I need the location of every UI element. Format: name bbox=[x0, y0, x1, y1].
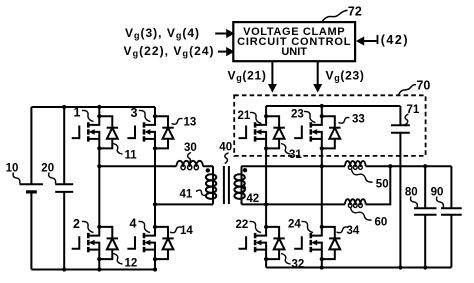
svg-text:60: 60 bbox=[375, 217, 388, 229]
label 34 bbox=[337, 225, 360, 237]
label 31 bbox=[281, 144, 302, 162]
label 32 bbox=[281, 254, 304, 271]
node: leg A' mid junction on W2 bbox=[264, 202, 268, 206]
label Vg(21) output bbox=[228, 69, 267, 84]
node: cap71 bottom junction bbox=[398, 265, 402, 269]
transformer 40 winding 41 bbox=[206, 166, 217, 204]
svg-text:14: 14 bbox=[180, 225, 193, 237]
svg-text:33: 33 bbox=[352, 114, 365, 126]
svg-text:Vg(3), Vg(4): Vg(3), Vg(4) bbox=[125, 26, 200, 41]
arrow I(42) bbox=[356, 36, 377, 45]
diode 11 bbox=[99, 116, 118, 148]
arrow Vg(21) down bbox=[268, 61, 277, 92]
diode 32 bbox=[266, 227, 285, 259]
svg-text:2: 2 bbox=[73, 217, 80, 231]
transistor 3 bbox=[127, 114, 157, 150]
svg-text:Vg(22), Vg(24): Vg(22), Vg(24) bbox=[124, 44, 215, 59]
node: cap20 bottom junction bbox=[62, 267, 66, 271]
diode 13 bbox=[155, 116, 174, 148]
node: leg B' mid junction on W1 bbox=[320, 164, 324, 168]
svg-text:11: 11 bbox=[125, 150, 138, 162]
wire: left top rail bbox=[31, 106, 155, 108]
node: cap80 top junction bbox=[423, 164, 427, 168]
wire: leg B segments bbox=[154, 107, 156, 270]
capacitor 80 bbox=[414, 166, 437, 267]
diode 31 bbox=[266, 116, 285, 148]
label 30 bbox=[184, 142, 197, 164]
svg-text:3: 3 bbox=[131, 106, 138, 120]
svg-text:50: 50 bbox=[376, 178, 389, 190]
label 13 bbox=[172, 117, 197, 129]
capacitor 20 bbox=[55, 184, 73, 192]
transistor 21 bbox=[239, 114, 269, 150]
wire: leg A' segments bbox=[265, 106, 267, 268]
node: leg A mid junction bbox=[97, 164, 101, 168]
svg-text:12: 12 bbox=[125, 258, 138, 270]
battery 10 bbox=[20, 184, 43, 192]
wire: battery column bbox=[30, 107, 32, 270]
arrow Vg(23) down bbox=[313, 61, 322, 92]
node: legA bottom junction bbox=[97, 267, 101, 271]
node: leg B' bottom junction bbox=[320, 265, 324, 269]
capacitor 71 bbox=[391, 106, 410, 268]
transistor 23 bbox=[294, 114, 324, 150]
node: legA top junction bbox=[97, 105, 101, 109]
label 14 bbox=[170, 225, 193, 237]
svg-text:24: 24 bbox=[288, 219, 301, 231]
capacitor 90 bbox=[441, 166, 462, 267]
label 22 bbox=[236, 219, 262, 233]
svg-text:70: 70 bbox=[416, 79, 430, 93]
wire: mid wire A (leg A to winding 41 top) bbox=[99, 165, 213, 167]
svg-text:30: 30 bbox=[184, 142, 197, 154]
svg-text:23: 23 bbox=[291, 109, 304, 121]
label 11 bbox=[113, 144, 137, 162]
inductor 50 bbox=[345, 161, 366, 169]
svg-text:4: 4 bbox=[130, 217, 137, 231]
wire: right bottom rail bbox=[266, 267, 451, 269]
diode 33 bbox=[322, 116, 341, 148]
transistor 24 bbox=[294, 225, 324, 261]
svg-text:13: 13 bbox=[184, 117, 197, 129]
label 41 bbox=[180, 188, 207, 200]
node: leg B' top junction bbox=[320, 104, 324, 108]
wire: leg B' segments bbox=[321, 106, 323, 268]
label 80 bbox=[405, 187, 418, 208]
label 3 bbox=[131, 106, 151, 122]
svg-text:42: 42 bbox=[246, 193, 259, 205]
inductor 60 bbox=[345, 199, 366, 207]
label 2 bbox=[73, 217, 94, 233]
transistor 4 bbox=[127, 225, 157, 261]
wire: W1 output wire from winding 42 top bbox=[242, 165, 452, 167]
label 40 bbox=[219, 142, 232, 164]
svg-text:21: 21 bbox=[238, 110, 251, 122]
voltage clamp dashed box 70 bbox=[234, 95, 425, 156]
wire: W2 output wire from winding 42 bottom bbox=[242, 166, 391, 204]
diode 12 bbox=[99, 227, 118, 259]
node: legB bottom junction bbox=[153, 267, 157, 271]
svg-text:71: 71 bbox=[407, 104, 420, 116]
label 4 bbox=[130, 217, 151, 233]
label 23 bbox=[291, 109, 316, 123]
label 20 bbox=[41, 162, 55, 183]
label 70 bbox=[399, 79, 431, 96]
diode 14 bbox=[155, 227, 174, 259]
label Vg(23) output bbox=[326, 69, 365, 84]
svg-text:72: 72 bbox=[348, 4, 362, 18]
svg-text:Vg(21): Vg(21) bbox=[228, 69, 267, 84]
label 72 bbox=[322, 4, 362, 21]
node: cap20 top junction bbox=[62, 105, 66, 109]
transistor 1 bbox=[72, 114, 102, 150]
diode 34 bbox=[322, 227, 341, 259]
label 21 bbox=[238, 110, 262, 124]
label Vg(22),Vg(24) input bbox=[124, 44, 215, 59]
svg-text:UNIT: UNIT bbox=[281, 46, 307, 58]
svg-text:40: 40 bbox=[219, 142, 232, 154]
label Vg(3),Vg(4) input bbox=[125, 26, 200, 41]
label 42 bbox=[243, 186, 259, 206]
label 12 bbox=[113, 254, 137, 270]
wire: right top rail bbox=[266, 105, 400, 107]
svg-text:Vg(23): Vg(23) bbox=[326, 69, 365, 84]
label 90 bbox=[431, 187, 444, 208]
wire: mid wire B (leg B to winding 41 bottom) bbox=[155, 203, 213, 205]
label 24 bbox=[288, 219, 313, 233]
transistor 2 bbox=[72, 225, 102, 261]
label 71 bbox=[404, 104, 420, 125]
node: W2 joins W1 bbox=[388, 164, 392, 168]
transistor 22 bbox=[239, 225, 269, 261]
transformer 40 winding 42 bbox=[234, 166, 247, 204]
svg-text:I(42): I(42) bbox=[376, 33, 409, 47]
label 50 bbox=[352, 170, 389, 191]
wire: capacitor 20 column bbox=[63, 107, 65, 270]
svg-text:1: 1 bbox=[74, 106, 81, 120]
arrow input 1 bbox=[215, 29, 234, 38]
wire: left bottom rail bbox=[31, 269, 157, 271]
label 60 bbox=[351, 208, 388, 229]
label I(42) input bbox=[376, 33, 409, 47]
svg-text:20: 20 bbox=[41, 162, 54, 174]
svg-text:31: 31 bbox=[289, 149, 302, 161]
svg-text:22: 22 bbox=[236, 219, 249, 231]
transformer 40 core bbox=[224, 166, 229, 204]
wire: leg A segments bbox=[98, 107, 100, 270]
svg-text:41: 41 bbox=[180, 188, 193, 200]
label 1 bbox=[74, 106, 94, 122]
arrow input 2 bbox=[218, 47, 235, 56]
control unit box U72 bbox=[233, 22, 355, 61]
inductor 30 bbox=[177, 161, 203, 170]
label 33 bbox=[339, 114, 365, 126]
svg-text:34: 34 bbox=[347, 225, 360, 237]
node: cap80 bottom junction bbox=[423, 265, 427, 269]
node: leg B mid junction bbox=[153, 202, 157, 206]
svg-text:10: 10 bbox=[6, 162, 19, 174]
svg-text:32: 32 bbox=[292, 259, 305, 271]
label 10 bbox=[6, 162, 20, 183]
